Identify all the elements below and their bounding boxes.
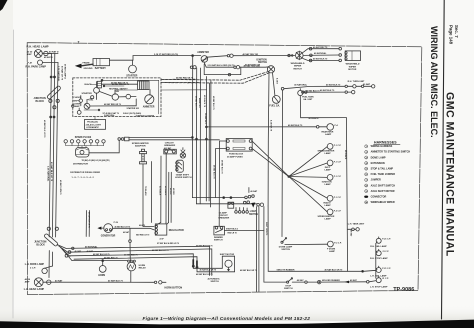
svg-text:WINDSHIELD: WINDSHIELD xyxy=(346,64,360,66)
svg-text:40 BLACK: 40 BLACK xyxy=(309,117,320,120)
svg-text:P-29: P-29 xyxy=(114,222,119,224)
svg-text:2-18 NATURAL: 2-18 NATURAL xyxy=(47,166,50,182)
svg-text:WIPER: WIPER xyxy=(294,66,302,68)
svg-text:2-18 3T NAT RED (29.79): 2-18 3T NAT RED (29.79) xyxy=(154,53,178,56)
svg-text:WIRING HARNESS: WIRING HARNESS xyxy=(371,145,393,148)
svg-text:40 NAT BLK LR 79: 40 NAT BLK LR 79 xyxy=(115,225,131,228)
breaker 50 amp circuit breaker xyxy=(228,202,234,208)
svg-text:ST NAT BLK A RED LR 79: ST NAT BLK A RED LR 79 xyxy=(157,242,179,245)
svg-text:40 NAT BLK LR 79: 40 NAT BLK LR 79 xyxy=(50,162,53,182)
svg-text:WINDSHIELD WIPER: WINDSHIELD WIPER xyxy=(371,201,395,204)
svg-text:40 NAT RED UR 79: 40 NAT RED UR 79 xyxy=(176,76,193,79)
wire fan to ignition lamp xyxy=(289,176,327,179)
svg-text:GROUND: GROUND xyxy=(84,68,93,70)
svg-text:HORN BUTTON: HORN BUTTON xyxy=(165,287,183,290)
svg-text:21 C.P.: 21 C.P. xyxy=(383,251,390,253)
engine box inner wires extra xyxy=(96,82,98,88)
svg-text:40 NAT BLK LR 79: 40 NAT BLK LR 79 xyxy=(196,244,212,247)
wire main trunk v5 xyxy=(208,83,210,201)
svg-text:START BLK A: START BLK A xyxy=(226,228,238,231)
svg-text:LAMP: LAMP xyxy=(325,152,332,155)
svg-text:DIMMER: DIMMER xyxy=(214,237,223,239)
wire fan to radio lamp xyxy=(289,177,327,199)
svg-text:FUSE BLOCK: FUSE BLOCK xyxy=(229,154,244,156)
svg-text:2-18 NAT BLK & RED (29.79): 2-18 NAT BLK & RED (29.79) xyxy=(208,64,235,67)
svg-text:AMMETER TO STARTING SWITCH: AMMETER TO STARTING SWITCH xyxy=(371,151,411,154)
wire jumper to turn unit row xyxy=(284,86,345,88)
svg-text:40 NAT BLK 79: 40 NAT BLK 79 xyxy=(108,279,124,282)
wire distributor to coil connector xyxy=(89,140,119,153)
svg-text:AMP: AMP xyxy=(25,281,30,284)
wire fan to lower speedometer lamp xyxy=(289,177,327,212)
wire main trunk v3 xyxy=(199,68,201,204)
svg-text:40 NAT BLK 79: 40 NAT BLK 79 xyxy=(212,96,215,109)
svg-text:COIL: COIL xyxy=(89,99,95,101)
wire headlight circuit down legs xyxy=(255,207,257,292)
wire lamp risers below junction xyxy=(48,251,50,278)
wire right trunk down xyxy=(346,118,347,272)
svg-text:40 NATURAL: 40 NATURAL xyxy=(314,52,327,55)
paper shading left edge xyxy=(0,0,13,328)
svg-text:AMMETER: AMMETER xyxy=(198,98,201,108)
svg-text:2-NATURAL: 2-NATURAL xyxy=(104,114,116,117)
wire tail lamp riser xyxy=(375,244,377,279)
svg-text:SHUT GRN 79: SHUT GRN 79 xyxy=(265,222,267,236)
svg-text:STARTER: STARTER xyxy=(126,75,137,78)
svg-text:WINDSHIELD: WINDSHIELD xyxy=(291,63,305,65)
svg-text:40 NAT RED 79: 40 NAT RED 79 xyxy=(104,257,118,260)
wire main trunk v2 xyxy=(196,68,256,204)
svg-text:SMOOTH RUBBER: SMOOTH RUBBER xyxy=(277,270,295,272)
svg-text:LAMP: LAMP xyxy=(325,218,332,221)
spark plug 6 xyxy=(96,140,99,143)
wire ammeter lower lead xyxy=(204,63,233,67)
svg-text:2 C.P.: 2 C.P. xyxy=(30,267,36,269)
resistor ignition resistor block xyxy=(138,81,150,90)
fuse block F1 xyxy=(226,139,252,152)
lamp dome lamp xyxy=(328,241,334,247)
svg-text:SW: SW xyxy=(116,91,119,93)
wire ignition to fuel gauge xyxy=(273,73,275,96)
svg-text:SWITCH: SWITCH xyxy=(211,281,220,283)
svg-text:25 AMP ACC: 25 AMP ACC xyxy=(204,113,207,125)
svg-text:R.H. PARK LAMP: R.H. PARK LAMP xyxy=(26,66,47,69)
node tail feed junction xyxy=(362,270,364,272)
svg-text:40 NAT LR 79: 40 NAT LR 79 xyxy=(60,66,63,81)
svg-text:40 NAT BLK LR 79: 40 NAT BLK LR 79 xyxy=(200,269,216,272)
paper shading bottom xyxy=(0,305,474,321)
svg-text:LEVER SWITCH: LEVER SWITCH xyxy=(175,177,192,179)
svg-text:INST.: INST. xyxy=(325,167,331,169)
svg-text:40 30: 40 30 xyxy=(27,50,33,53)
motor starter xyxy=(129,65,137,73)
svg-text:STOP & TAIL LAMP: STOP & TAIL LAMP xyxy=(371,168,394,171)
wire choke stub xyxy=(80,96,82,99)
svg-text:DOME LAMP: DOME LAMP xyxy=(279,245,293,248)
wire sender connectors extra xyxy=(302,91,304,93)
svg-text:REAR MKR: REAR MKR xyxy=(322,130,334,133)
switch gear shift lever switch xyxy=(176,160,183,172)
svg-text:P-4: P-4 xyxy=(335,124,339,127)
svg-text:L.H. PARK LAMP: L.H. PARK LAMP xyxy=(25,263,45,266)
lamp L.H. head lamp xyxy=(34,278,43,287)
svg-text:AMMETER: AMMETER xyxy=(143,105,155,108)
svg-text:LAMP: LAMP xyxy=(325,183,332,186)
wire generator branch to horn relay xyxy=(129,228,131,240)
wire engine feed top xyxy=(102,83,138,85)
svg-text:AMP: AMP xyxy=(27,53,32,56)
svg-text:40 NAT: 40 NAT xyxy=(350,230,353,237)
svg-text:LAMP: LAMP xyxy=(325,204,332,207)
svg-text:40 NAT: 40 NAT xyxy=(297,279,305,282)
svg-text:AXLE SHIFT SWITCH: AXLE SHIFT SWITCH xyxy=(371,184,396,187)
svg-text:RADIO: RADIO xyxy=(324,202,331,205)
node accessory jumper connector xyxy=(281,87,284,90)
wire rear marker lamp lead xyxy=(206,126,208,128)
svg-text:BATTERY: BATTERY xyxy=(95,67,106,70)
legend item 6 xyxy=(365,173,368,176)
wire main trunk v1 xyxy=(192,56,244,197)
motor windshield wiper motor xyxy=(345,51,360,61)
svg-text:P-47: P-47 xyxy=(28,61,33,64)
lamp radio lamp xyxy=(327,195,333,201)
svg-text:MOLDED RUBBER: MOLDED RUBBER xyxy=(322,280,340,282)
svg-text:STARTER: STARTER xyxy=(82,92,93,95)
wire fuse to lamp fan diagonals xyxy=(252,141,289,176)
coil ignition coil xyxy=(84,103,90,109)
svg-text:LEVER: LEVER xyxy=(73,103,80,105)
paper fold line left xyxy=(12,30,15,318)
svg-text:IGNITION LIGHTER: IGNITION LIGHTER xyxy=(136,115,155,117)
wire coil lead to trunk xyxy=(129,139,219,141)
switch main light switch cluster xyxy=(245,196,248,199)
motor axle shift motor xyxy=(221,256,223,268)
lamp rear marker lamp xyxy=(327,124,334,131)
junction block upper diagonal bar xyxy=(47,85,62,99)
wire mid risers xyxy=(85,211,87,237)
switch starter switch xyxy=(94,87,100,93)
svg-text:40 NAT RED OR: 40 NAT RED OR xyxy=(245,64,261,67)
wire dome feed trunk xyxy=(281,90,284,237)
wire main trunk v6 xyxy=(210,80,212,207)
svg-text:2-18 NATURAL: 2-18 NATURAL xyxy=(57,66,60,82)
legend item 8 xyxy=(365,184,368,187)
svg-text:BREAKER: BREAKER xyxy=(218,216,229,219)
svg-text:BLOCK: BLOCK xyxy=(36,244,45,247)
hydramatic note box xyxy=(85,120,106,130)
wire fuse block feeds xyxy=(219,141,226,198)
svg-text:STOP: STOP xyxy=(285,285,291,287)
legend item 1 xyxy=(365,145,368,148)
svg-text:TR (BK) 41 (BK) LR (29) (BK)(T: TR (BK) 41 (BK) LR (29) (BK)(TR) xyxy=(82,159,110,162)
svg-text:FRAME: FRAME xyxy=(83,62,91,65)
node lamp fan junction xyxy=(288,176,290,178)
svg-text:SWITCH: SWITCH xyxy=(284,288,293,290)
wire ignition accessory trunk xyxy=(267,73,270,206)
generator G1 xyxy=(104,224,113,233)
gauge fuel gauge xyxy=(272,96,280,104)
engine compartment dashed box xyxy=(73,78,161,117)
resistor R.H. head lamp circle xyxy=(34,50,42,58)
svg-text:A OF: A OF xyxy=(160,238,165,241)
switch windshield wiper switch xyxy=(296,52,304,60)
wire ignition to engine harness pair xyxy=(161,72,268,81)
svg-text:7: 7 xyxy=(78,41,80,45)
svg-text:TR BLACK: TR BLACK xyxy=(144,186,147,196)
wire plug leads xyxy=(66,143,104,146)
svg-text:41 BLACK: 41 BLACK xyxy=(159,186,162,196)
wire starter to ammeter main lead xyxy=(133,55,201,57)
horn xyxy=(99,266,106,273)
svg-text:IGNITION: IGNITION xyxy=(322,182,332,184)
svg-text:SWITCH: SWITCH xyxy=(281,249,290,251)
svg-text:P-21 C.P.: P-21 C.P. xyxy=(382,239,391,241)
svg-text:40 NAT BLK GR 79: 40 NAT BLK GR 79 xyxy=(325,269,344,272)
svg-text:40 GRY: 40 GRY xyxy=(75,250,82,253)
lamp ignition lamp xyxy=(327,175,333,181)
svg-text:40 NAT: 40 NAT xyxy=(350,279,358,282)
svg-text:LAMP: LAMP xyxy=(325,169,332,172)
svg-text:P-2 C.P.: P-2 C.P. xyxy=(334,243,342,245)
svg-text:40 NAT BLK GR 79: 40 NAT BLK GR 79 xyxy=(240,269,257,272)
svg-text:R.H. STOP LAMP: R.H. STOP LAMP xyxy=(370,257,388,260)
svg-text:40 NAT BLK 79: 40 NAT BLK 79 xyxy=(194,96,197,109)
lamp L.H. stop lamp xyxy=(376,278,381,283)
svg-text:GENERATOR: GENERATOR xyxy=(101,235,116,238)
ground frame ground arrow xyxy=(81,64,94,66)
svg-text:BREAKER: BREAKER xyxy=(164,144,175,147)
wire main trunk v4 xyxy=(205,77,207,202)
page bottom black bar xyxy=(0,320,474,328)
wire dimmer feed xyxy=(218,198,220,227)
wire dome lamp lead xyxy=(285,243,328,245)
svg-text:P-1 C.P.: P-1 C.P. xyxy=(334,197,342,199)
spark plug 2 xyxy=(70,140,73,143)
legend item connector xyxy=(364,196,368,198)
svg-text:40 NAT BLK LR 79: 40 NAT BLK LR 79 xyxy=(93,253,109,256)
svg-text:40 NAT: 40 NAT xyxy=(250,190,258,193)
svg-text:SPEEDOMETER: SPEEDOMETER xyxy=(318,216,335,218)
svg-text:Figure 1—Wiring Diagram—All Co: Figure 1—Wiring Diagram—All Conventional… xyxy=(143,316,311,321)
wire fan to inst lamp xyxy=(289,163,327,177)
svg-text:HYDRAMATIC: HYDRAMATIC xyxy=(86,126,99,129)
wire head lamp drop link xyxy=(48,53,51,55)
svg-text:40 NAT BLK 79: 40 NAT BLK 79 xyxy=(220,160,223,173)
wire left trunk 1 xyxy=(49,54,51,238)
svg-text:40 NAT BLK LR 79: 40 NAT BLK LR 79 xyxy=(87,212,90,228)
switch dimmer switch xyxy=(214,226,225,235)
svg-text:DISTRIBUTOR: DISTRIBUTOR xyxy=(73,164,88,166)
svg-text:Page 148: Page 148 xyxy=(449,25,454,45)
ground generator ground arrow xyxy=(101,227,104,229)
svg-text:40 NATURAL: 40 NATURAL xyxy=(85,246,98,249)
lamp L.H. park lamp xyxy=(42,268,47,273)
svg-text:2-BLACK-2-18TR: 2-BLACK-2-18TR xyxy=(86,123,102,126)
svg-text:40 NAT BLK LR 79: 40 NAT BLK LR 79 xyxy=(152,249,168,252)
svg-text:HORN: HORN xyxy=(98,275,105,277)
svg-text:LAMP: LAMP xyxy=(329,250,336,253)
svg-text:SWITCH: SWITCH xyxy=(249,214,258,216)
meter ammeter xyxy=(201,56,208,63)
svg-text:40 NAT BLK 79: 40 NAT BLK 79 xyxy=(288,124,303,127)
junction block lower diagonal bar xyxy=(44,233,59,246)
svg-text:L.H. HEAD LAMP: L.H. HEAD LAMP xyxy=(24,288,45,291)
svg-text:WIRING AND MISC. ELEC.: WIRING AND MISC. ELEC. xyxy=(429,26,439,138)
svg-text:40 NAT BLK 79: 40 NAT BLK 79 xyxy=(313,58,328,61)
wire junction block runs xyxy=(66,246,210,275)
legend item 7 xyxy=(365,178,368,181)
svg-text:40 NAT RED UR 79: 40 NAT RED UR 79 xyxy=(112,83,129,86)
legend item windshield wiper xyxy=(365,201,368,204)
svg-text:GEAR SHIFT: GEAR SHIFT xyxy=(176,173,190,176)
wire wiper leads xyxy=(303,49,339,53)
svg-text:P-2 C.P.: P-2 C.P. xyxy=(334,211,342,213)
legend item 2 xyxy=(365,150,368,153)
svg-text:EXTENSION: EXTENSION xyxy=(371,162,385,165)
node R.H. turn unit connectors xyxy=(345,85,347,87)
svg-text:P-1 C.P.: P-1 C.P. xyxy=(334,145,342,147)
wire speedometer cable down to regulator xyxy=(143,164,154,227)
svg-text:REGULATOR: REGULATOR xyxy=(169,229,184,232)
battery B1 xyxy=(93,59,110,66)
svg-text:40 NAT D: 40 NAT D xyxy=(44,56,53,59)
svg-text:21 C.P.: 21 C.P. xyxy=(382,278,389,280)
svg-text:SPEEDOMETER: SPEEDOMETER xyxy=(318,150,335,152)
wire engine to trunk joins xyxy=(161,78,197,80)
svg-text:STARTER SW: STARTER SW xyxy=(127,107,140,110)
svg-text:40 NAT RED 79: 40 NAT RED 79 xyxy=(124,254,138,257)
svg-text:RELAY: RELAY xyxy=(139,267,147,270)
svg-text:TP-9086: TP-9086 xyxy=(393,287,414,293)
svg-text:40 NAT BLK LR 79: 40 NAT BLK LR 79 xyxy=(196,273,212,276)
svg-text:CIRCUIT: CIRCUIT xyxy=(165,143,175,145)
svg-text:BLOCK: BLOCK xyxy=(36,100,45,103)
wire left trunk 2 xyxy=(52,54,54,238)
svg-text:40 NAT BLK 79: 40 NAT BLK 79 xyxy=(320,89,335,92)
svg-text:25 AMP FUSES: 25 AMP FUSES xyxy=(227,155,243,158)
svg-text:SWITCH: SWITCH xyxy=(214,240,223,242)
wire horn button run xyxy=(43,281,154,283)
svg-text:MOTOR: MOTOR xyxy=(348,69,357,71)
wire battery to starter xyxy=(110,56,134,61)
svg-text:40 A 79: 40 A 79 xyxy=(139,224,145,227)
legend item 3 xyxy=(365,156,368,159)
page corner blob top-left xyxy=(0,0,8,11)
node lamp risers dots xyxy=(50,76,52,78)
switch dome lamp switch xyxy=(281,241,283,243)
label hydramatic leader xyxy=(94,117,96,120)
svg-text:HORN: HORN xyxy=(139,265,146,267)
svg-text:GA. UNIT: GA. UNIT xyxy=(303,98,313,101)
wire left trunk 3 xyxy=(56,63,58,238)
svg-text:40 BLACK: 40 BLACK xyxy=(344,150,347,160)
svg-text:40 NAT REV OR: 40 NAT REV OR xyxy=(243,53,259,56)
wire accessory bundle down xyxy=(160,156,162,223)
wire ammeter to ignition top lead xyxy=(207,56,227,58)
spark plug 7 xyxy=(102,140,105,143)
svg-text:40 NAT GRN 79: 40 NAT GRN 79 xyxy=(59,180,62,195)
spark plug 4 xyxy=(83,140,86,143)
svg-text:FUEL TANK JUMPER: FUEL TANK JUMPER xyxy=(371,173,396,176)
svg-text:WIPER: WIPER xyxy=(349,66,357,68)
wire park lamp feed xyxy=(43,62,59,64)
svg-text:40 NAT REV 79: 40 NAT REV 79 xyxy=(313,46,328,49)
wire stop lamp run xyxy=(292,281,304,283)
lamp R.H. stop lamp xyxy=(376,251,381,256)
svg-text:1 - 8 - 7 - 3 - 6 - 5 - 4 - 2: 1 - 8 - 7 - 3 - 6 - 5 - 4 - 2 xyxy=(72,176,95,179)
lamp instrument lamp xyxy=(327,160,333,166)
diagram border frame xyxy=(27,43,422,295)
svg-text:AUTOMATIC: AUTOMATIC xyxy=(208,277,221,280)
lamp R.H. tail lamp xyxy=(376,238,381,243)
svg-text:JUMPER: JUMPER xyxy=(371,179,381,182)
relay horn relay xyxy=(127,262,136,271)
svg-text:SPEEDOMETER: SPEEDOMETER xyxy=(132,143,149,145)
lamp P-47 R.H. park lamp xyxy=(38,60,43,65)
svg-text:40 BLACK 79: 40 BLACK 79 xyxy=(203,95,206,107)
svg-text:R.H. HEAD LAMP: R.H. HEAD LAMP xyxy=(27,44,49,48)
regulator VR xyxy=(155,224,167,235)
legend item 5 xyxy=(365,167,368,170)
svg-text:ADAPTER: ADAPTER xyxy=(135,145,146,148)
svg-text:SHIFT: SHIFT xyxy=(73,101,80,103)
svg-text:RED LR 79: RED LR 79 xyxy=(228,233,237,235)
svg-text:A 18 BLK 79: A 18 BLK 79 xyxy=(270,120,273,131)
sender gas tank unit xyxy=(298,90,303,95)
svg-text:L.H. TANK UNIT: L.H. TANK UNIT xyxy=(348,222,365,225)
wire: R.H. head lamp feed xyxy=(43,53,59,55)
meter engine ammeter xyxy=(145,95,154,104)
svg-text:40 NAT: 40 NAT xyxy=(87,250,94,253)
svg-text:40 30: 40 30 xyxy=(25,278,31,281)
svg-text:P-1 C.P.: P-1 C.P. xyxy=(334,162,342,164)
svg-text:40 NATURAL: 40 NATURAL xyxy=(294,84,308,87)
svg-text:40 BLK: 40 BLK xyxy=(169,188,172,195)
switch stop light switch xyxy=(287,281,289,283)
svg-text:A 18 B: A 18 B xyxy=(275,78,278,84)
svg-text:P-1 C.P.: P-1 C.P. xyxy=(334,176,342,178)
svg-text:AXLE SHIFT MOTOR: AXLE SHIFT MOTOR xyxy=(371,190,395,193)
legend harnesses box xyxy=(374,141,397,145)
switch ignition switch xyxy=(267,66,274,73)
svg-text:40 RED: 40 RED xyxy=(172,188,175,195)
svg-text:L.H. STOP LAMP: L.H. STOP LAMP xyxy=(370,285,388,288)
svg-text:HARNESSES: HARNESSES xyxy=(374,141,397,145)
svg-text:CONNECTOR: CONNECTOR xyxy=(371,196,387,199)
svg-text:P-21 C.P.: P-21 C.P. xyxy=(382,268,391,270)
wire stop light feed xyxy=(264,207,287,283)
svg-text:R.H. TAIL LAMP: R.H. TAIL LAMP xyxy=(370,245,387,248)
svg-text:AMMETER: AMMETER xyxy=(197,51,209,54)
legend item 4 xyxy=(365,162,368,165)
svg-text:40 NAT BLK LR 79: 40 NAT BLK LR 79 xyxy=(43,120,46,138)
svg-text:LAMP: LAMP xyxy=(74,105,81,108)
svg-text:40 NAT: 40 NAT xyxy=(363,83,371,86)
svg-text:DISTRIBUTOR FIRING ORDER: DISTRIBUTOR FIRING ORDER xyxy=(70,172,100,174)
svg-text:40 BLACK: 40 BLACK xyxy=(164,186,167,196)
svg-text:LAMP: LAMP xyxy=(325,133,332,136)
wire diagonals out of lower junction block xyxy=(57,245,66,249)
lamp L.H. tail lamp xyxy=(376,268,381,273)
wire sender down to black lead xyxy=(300,96,346,118)
svg-text:NAT RED LR 79: NAT RED LR 79 xyxy=(136,233,149,236)
svg-text:DOME LAMP: DOME LAMP xyxy=(371,156,386,159)
wire tank sender lead xyxy=(303,91,345,93)
node trunk junction dots xyxy=(223,197,225,199)
spark plug 3 xyxy=(77,140,80,143)
wire fan to speedometer lamp xyxy=(289,147,328,177)
svg-text:SPARK PLUGS: SPARK PLUGS xyxy=(75,136,92,139)
